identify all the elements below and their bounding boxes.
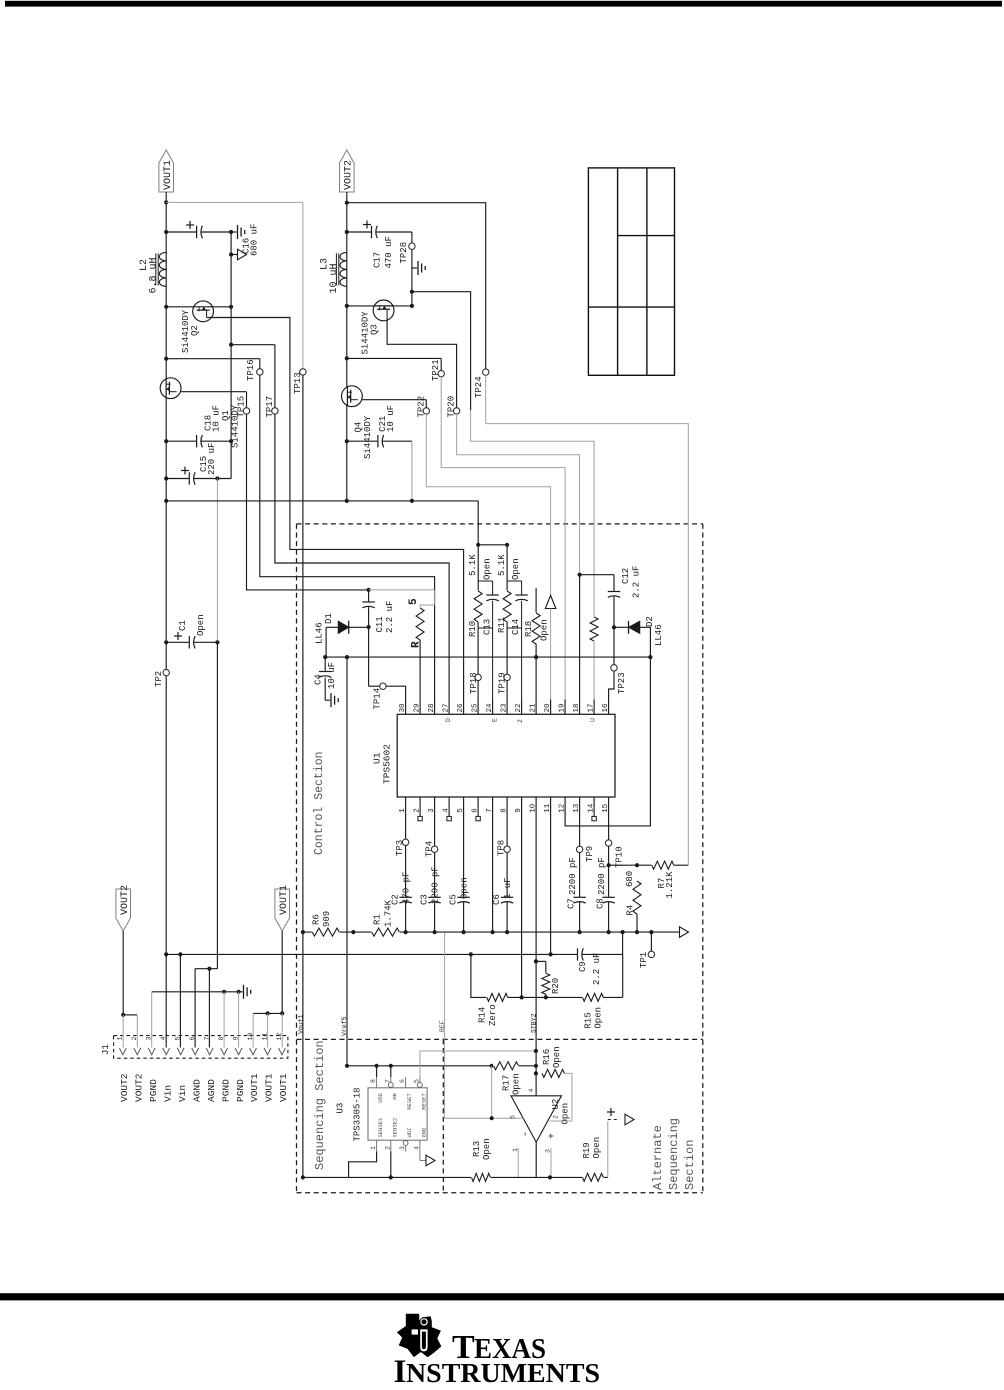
wire pin9 down to R14 line [521, 812, 523, 998]
svg-text:U2: U2 [551, 1099, 561, 1110]
node C2 [404, 930, 408, 934]
ground earth symbol at C4 [330, 693, 332, 707]
capacitor C12 2.2uF [613, 575, 615, 628]
svg-text:TP28: TP28 [399, 242, 409, 264]
U1 no-connect square [419, 812, 421, 817]
svg-text:12: 12 [558, 804, 566, 813]
svg-text:R18: R18 [524, 621, 534, 637]
svg-text:TP1: TP1 [639, 952, 649, 968]
resistor R11 5.1K [505, 543, 509, 547]
node C21 [345, 439, 349, 443]
svg-text:909: 909 [322, 911, 332, 927]
svg-text:2: 2 [517, 719, 524, 723]
test point TP23 [613, 627, 615, 664]
diode D2 LL46 [614, 626, 629, 628]
wire U3 pin5 RESET to STBY2 node [419, 1051, 421, 1077]
svg-text:I: I [394, 1354, 407, 1385]
test point TP8 on pin8 [506, 812, 508, 847]
node Vin rail [164, 499, 168, 503]
wire PGND2/drive to pin17 (grey) [471, 410, 594, 617]
svg-text:Vout1: Vout1 [297, 1014, 304, 1034]
svg-text:VOUT2: VOUT2 [119, 1073, 130, 1102]
svg-text:RESET: RESET [406, 1093, 413, 1110]
wire D1 anode down [325, 627, 327, 657]
U1 pin 5 stub [463, 797, 465, 812]
svg-text:TP22: TP22 [417, 396, 427, 418]
wire to pin23 [506, 622, 508, 700]
svg-text:5.1K: 5.1K [468, 554, 478, 576]
op-amp U2 Open [511, 1096, 562, 1142]
node PGND arrow tap [229, 252, 233, 256]
svg-text:C9: C9 [578, 961, 588, 972]
test point TP13 [300, 369, 306, 375]
svg-text:680 uF: 680 uF [250, 224, 260, 256]
svg-text:680: 680 [625, 871, 635, 887]
node pin7 [491, 930, 495, 934]
resistor R7 1.21K [651, 860, 674, 870]
svg-text:10 uF: 10 uF [386, 405, 396, 432]
wire C15 branch [166, 478, 231, 480]
capacitor C2 470pF [398, 897, 412, 902]
svg-text:SENSE2: SENSE2 [391, 1118, 398, 1138]
svg-text:23: 23 [500, 703, 508, 713]
J1 pin 12 VOUT1 [279, 1048, 286, 1055]
capacitor C5 Open on pin5 [463, 812, 465, 933]
svg-text:25: 25 [471, 703, 479, 713]
wire R4/R7 feed line [609, 864, 652, 866]
J1 pin 4 Vin [163, 1048, 170, 1055]
svg-text:TP8: TP8 [497, 840, 507, 856]
comp/AGND rail [303, 931, 679, 933]
capacitor C16 [196, 225, 201, 239]
svg-text:C17: C17 [373, 252, 383, 268]
svg-text:22: 22 [515, 703, 523, 712]
node Q2 source [164, 305, 168, 309]
U1 pin 3 stub [434, 797, 436, 812]
J1 pin 1 VOUT2 [119, 1048, 126, 1055]
U1 pin 10 stub [535, 797, 537, 812]
svg-text:C4: C4 [314, 674, 324, 685]
svg-text:6: 6 [399, 1079, 406, 1083]
U1 pin 29 stub [419, 700, 421, 715]
svg-text:R6: R6 [312, 914, 322, 925]
svg-text:C1: C1 [178, 620, 188, 631]
svg-text:TP24: TP24 [474, 376, 484, 398]
capacitor C18 [196, 434, 201, 448]
svg-text:11: 11 [544, 803, 552, 813]
U1 pin 6 stub [477, 797, 479, 812]
resistor R18 Open [535, 588, 537, 613]
wire TP17 to pin27 staircase [275, 414, 449, 699]
svg-text:PGND: PGND [235, 1079, 246, 1102]
wire Q2 chord [166, 306, 231, 308]
test point TP2 [163, 669, 169, 675]
capacitor C3 2200pF [427, 897, 441, 902]
svg-text:C7: C7 [566, 898, 576, 909]
node pin9 on R14 line [520, 995, 524, 999]
wire to TP17 [231, 344, 275, 346]
U1 pin 25 stub [477, 700, 479, 715]
svg-text:220 uF: 220 uF [207, 443, 217, 475]
wire Q4 gate to TP22 [362, 399, 426, 401]
power flag arrow PGND1 [238, 249, 247, 260]
C17 plus sign [363, 224, 371, 226]
wire Q3 chord [347, 305, 412, 307]
svg-text:5: 5 [510, 1115, 517, 1119]
wire C16 node down [230, 232, 232, 307]
node R6 left [301, 930, 305, 934]
wire rail to lower rail [622, 932, 624, 954]
svg-text:Open: Open [512, 1073, 522, 1095]
svg-text:TP16: TP16 [246, 359, 256, 381]
svg-text:6.8 uH: 6.8 uH [149, 257, 160, 293]
svg-text:Open: Open [483, 558, 493, 580]
svg-text:R19: R19 [582, 1142, 592, 1158]
wire R10/R11 top tie [478, 544, 507, 546]
wire VOUT2 main vertical [346, 192, 348, 501]
node C5 [462, 930, 466, 934]
net flag VOUT1 (top) [159, 150, 174, 192]
wire D2 node down to pin12 [565, 657, 650, 826]
svg-text:21: 21 [529, 703, 537, 713]
node C7 [578, 930, 582, 934]
svg-text:Q2: Q2 [190, 325, 200, 336]
svg-text:VDD: VDD [377, 1092, 384, 1103]
svg-text:TP17: TP17 [265, 396, 275, 418]
svg-text:J1: J1 [101, 1044, 111, 1055]
U1 pin 22 stub [521, 700, 523, 715]
svg-text:-: - [521, 1131, 532, 1137]
svg-text:Vref5: Vref5 [341, 1016, 348, 1036]
U1 pin 17 stub [593, 700, 595, 715]
transistor Q1 Si4410DY [160, 378, 181, 399]
svg-text:470 uF: 470 uF [384, 236, 394, 268]
svg-text:TP23: TP23 [617, 672, 627, 694]
dashed stub with plus and arrow [608, 1119, 620, 1121]
svg-text:14: 14 [587, 803, 595, 813]
wire Vin rail horizontal [166, 500, 478, 502]
svg-text:VOUT1: VOUT1 [249, 1073, 260, 1102]
svg-text:Vin: Vin [177, 1085, 188, 1102]
node C11/boot [367, 588, 371, 592]
svg-text:Open: Open [459, 877, 469, 899]
bottom line with R13/R19 [303, 1176, 608, 1178]
node R7/R4 line [607, 863, 611, 867]
transistor Q2 Si4410DY [193, 301, 214, 322]
J1 pin 2 VOUT2 [134, 1048, 141, 1055]
wire VOUT2 flag to J1 pins 1,2 [116, 889, 131, 931]
wire to pin25 [477, 622, 479, 700]
wire U3 pin1 SENSE1 jog [349, 1152, 377, 1178]
wire REF to U2 in- [445, 1117, 524, 1119]
svg-text:10 uH: 10 uH [329, 263, 340, 293]
capacitor C9 2.2uF [577, 947, 582, 961]
J1 pin 10 VOUT1 [250, 1048, 257, 1055]
svg-text:Open: Open [592, 1137, 602, 1159]
svg-text:1: 1 [117, 1037, 124, 1041]
svg-text:5.1K: 5.1K [497, 554, 507, 576]
net flag VOUT2 (top) [340, 150, 355, 192]
test point TP3 on pin1 [405, 812, 407, 840]
svg-text:Q4: Q4 [354, 422, 364, 433]
wire pin18 node to C12 [578, 573, 582, 577]
ground earth symbol at C17 [417, 261, 419, 275]
wire TP14 to pin30 [368, 627, 370, 686]
svg-text:19: 19 [558, 703, 566, 712]
svg-text:TP18: TP18 [469, 672, 479, 694]
svg-text:LL46: LL46 [315, 622, 325, 644]
wire TP16 to pin28 staircase [260, 375, 435, 699]
svg-text:R20: R20 [551, 978, 561, 994]
C16 plus sign [186, 224, 194, 226]
resistor R1 1.74K [371, 927, 400, 937]
U1 pin 20 stub [550, 700, 552, 715]
U1 pin 11 stub [550, 797, 552, 812]
U1 pin 14 stub [593, 797, 595, 812]
ground earth symbol at C16 [237, 225, 239, 239]
node pin11 [549, 952, 553, 956]
svg-text:R15: R15 [584, 1012, 594, 1028]
node C15 [164, 476, 168, 480]
U1 pin 13 stub [579, 797, 581, 812]
svg-text:R: R [411, 641, 423, 648]
U1 pin 2 stub [419, 797, 421, 812]
U1 pin 4 stub [448, 797, 450, 812]
svg-text:Open: Open [552, 1046, 562, 1068]
net arrow at rail end [680, 927, 689, 938]
U3 TPS3305-18 body [368, 1088, 427, 1140]
wire Vin pins 4,5 [165, 954, 167, 1047]
U1 pin 16 stub [608, 700, 610, 715]
svg-text:GND: GND [420, 1127, 427, 1138]
svg-text:C8: C8 [595, 898, 605, 909]
svg-text:2200 pF: 2200 pF [430, 866, 440, 904]
node R6/R1 [351, 930, 355, 934]
node C6 [505, 930, 509, 934]
svg-text:Si4410DY: Si4410DY [363, 415, 373, 459]
resistor R10 5.1K [476, 543, 480, 547]
U1 pin 21 stub [535, 700, 537, 715]
test point TP20 [453, 408, 459, 414]
svg-text:REF: REF [439, 1020, 446, 1032]
test points TP18 TP19 [475, 674, 481, 680]
wire Q2 gate to pin26 staircase [207, 318, 464, 700]
capacitor C15 [189, 471, 194, 485]
sequencing / alternate divider [442, 1039, 444, 1192]
node C17 tap [345, 230, 349, 234]
test point TP28 [409, 243, 415, 249]
svg-text:30: 30 [399, 703, 407, 713]
C15 plus sign [181, 470, 189, 472]
resistor R15 Open [582, 992, 604, 1002]
svg-text:Sequencing Section: Sequencing Section [313, 1040, 327, 1170]
svg-text:Open: Open [511, 558, 521, 580]
svg-text:TP15: TP15 [237, 396, 247, 418]
connector J1 dashed box [114, 1036, 288, 1059]
svg-text:D: D [445, 718, 452, 722]
U3 bottom pins 1,2,3,4 [376, 1140, 378, 1151]
U1 pin 7 stub [492, 797, 494, 812]
svg-text:TP9: TP9 [585, 846, 595, 862]
node PGND2 [410, 290, 414, 294]
wire to pin22 [521, 628, 523, 700]
svg-text:TP14: TP14 [373, 688, 383, 710]
svg-text:R4: R4 [625, 905, 635, 916]
svg-text:5: 5 [408, 598, 420, 605]
svg-text:D1: D1 [324, 613, 334, 624]
wire TP15 to D1 node [247, 414, 369, 590]
node TP1 [649, 930, 653, 934]
node R18 on bus [534, 655, 538, 659]
wire Vout1 sense down to sequencing [302, 932, 304, 1177]
capacitor C11 [368, 590, 370, 627]
diode D1 triangle [338, 621, 348, 633]
svg-text:24: 24 [486, 703, 494, 713]
svg-text:20: 20 [544, 703, 552, 713]
node C16 tap [164, 230, 168, 234]
svg-text:10 uF: 10 uF [212, 405, 222, 432]
diode D1 cathode bar [348, 621, 350, 634]
svg-text:4: 4 [528, 1089, 535, 1093]
svg-text:18: 18 [573, 703, 581, 712]
J1 pin 3 PGND [148, 1048, 155, 1055]
test point TP10 on pin15 [608, 812, 610, 840]
wire TP20 to pin18 staircase (grey) [457, 414, 580, 575]
wire AGND drop lower [216, 642, 218, 968]
node C3 [433, 930, 437, 934]
svg-text:AGND: AGND [191, 1079, 202, 1102]
wire C21 to rail (grey) [411, 441, 413, 501]
wire pin10 STBY2 down [535, 812, 537, 1096]
svg-text:STBY2: STBY2 [530, 1013, 537, 1033]
svg-text:16: 16 [602, 703, 610, 713]
wire to C16 [166, 231, 231, 233]
wire TP22 to pin20 staircase (grey) [426, 414, 550, 596]
capacitor C21 [377, 434, 382, 448]
svg-text:PGND: PGND [148, 1079, 159, 1102]
svg-text:MR: MR [391, 1092, 398, 1099]
U1 pin 30 stub [405, 700, 407, 715]
node Q2 drain [229, 305, 233, 309]
svg-text:WDI: WDI [406, 1128, 413, 1138]
ground earth symbol at J1 PGND [243, 985, 245, 999]
svg-text:R13: R13 [472, 1141, 482, 1157]
svg-text:1.21K: 1.21K [665, 871, 675, 899]
wire to TP21 [347, 357, 441, 359]
svg-text:2.2 uF: 2.2 uF [592, 953, 602, 985]
transistor Q3 Si4410DY [373, 300, 394, 321]
svg-text:TP21: TP21 [431, 359, 441, 381]
svg-text:C14: C14 [511, 619, 521, 635]
svg-text:10: 10 [529, 803, 537, 813]
svg-text:2: 2 [384, 1146, 391, 1150]
wire pin11 to lower rail [550, 812, 552, 955]
capacitor C1 (Open) [164, 640, 168, 644]
svg-text:TPS3305-18: TPS3305-18 [353, 1087, 363, 1141]
wire VOUT1 sense to TP13 (grey) [166, 201, 303, 203]
resistor R13 Open [471, 1172, 491, 1182]
wire TP13/VOUT1 down to R6 [302, 375, 304, 932]
U1 pin 8 stub [506, 797, 508, 812]
J1 pin 9 PGND [235, 1048, 242, 1055]
test point TP21 [438, 370, 444, 376]
svg-text:3: 3 [545, 1149, 552, 1153]
wire AGND drop (grey) [216, 479, 218, 643]
svg-text:U3: U3 [336, 1103, 346, 1114]
U1 pin 27 stub [448, 700, 450, 715]
svg-text:Alternate: Alternate [651, 1125, 665, 1190]
svg-text:29: 29 [413, 703, 421, 712]
J1 pin 11 VOUT1 [264, 1048, 271, 1055]
net flag arrow (pin20) [545, 596, 556, 609]
resistor R17 Open [490, 1064, 494, 1068]
U1 pin 18 stub [579, 700, 581, 715]
svg-text:Control Section: Control Section [313, 751, 326, 855]
wire Vref5 to U3 VDD/MR and R17 [347, 1065, 536, 1067]
wire to R5 (grey) [369, 589, 435, 591]
svg-text:SENSE1: SENSE1 [377, 1117, 384, 1138]
svg-text:Open: Open [594, 1007, 604, 1029]
wire Q1 gate to TP15 [181, 391, 247, 393]
svg-text:Section: Section [683, 1140, 697, 1190]
node TP16 tap [164, 357, 168, 361]
J1 pin 6 AGND [192, 1048, 199, 1055]
wire Vref5 vertical [346, 657, 348, 1066]
TI logo mark [397, 1314, 441, 1358]
svg-text:Q3: Q3 [370, 324, 380, 335]
wire C17 right leg [411, 232, 413, 306]
svg-text:470 pF: 470 pF [401, 872, 411, 904]
node pin5 riser [178, 952, 182, 956]
svg-text:26: 26 [457, 703, 465, 713]
svg-text:15: 15 [602, 803, 610, 813]
capacitor C7 2200pF [572, 897, 586, 902]
svg-text:1: 1 [370, 1146, 377, 1150]
wire pin7 to rail [492, 812, 494, 933]
resistor (gate drive, pin17 line) [589, 617, 599, 642]
svg-text:R17: R17 [502, 1075, 512, 1091]
svg-text:Sequencing: Sequencing [667, 1118, 681, 1190]
svg-text:R1: R1 [373, 914, 383, 925]
top border bar [5, 1, 1002, 7]
svg-text:LL46: LL46 [654, 624, 664, 646]
svg-text:TP4: TP4 [425, 841, 435, 857]
svg-text:8: 8 [370, 1079, 377, 1083]
wire STBY2 into U2 pin4 [534, 1064, 538, 1068]
J1 pin 7 AGND [206, 1048, 213, 1055]
long horizontal node line (boot/vref bus) [325, 656, 650, 658]
capacitor C13 Open [478, 580, 492, 582]
test point TP4 on pin3 [434, 812, 436, 847]
U1 pin 12 stub [564, 797, 566, 812]
svg-text:Vin: Vin [162, 1085, 173, 1102]
svg-text:2200 pF: 2200 pF [597, 857, 607, 895]
wire to TP16 [166, 358, 260, 360]
test point TP15 [243, 408, 249, 414]
capacitor C8 2200pF [601, 897, 615, 902]
svg-text:TP2: TP2 [154, 671, 164, 687]
svg-text:R10: R10 [468, 621, 478, 637]
node Q3 drain [410, 304, 414, 308]
capacitor C6 1uF [500, 897, 514, 902]
U1 pin 26 stub [463, 700, 465, 715]
node R14 drop [469, 952, 473, 956]
resistor R6 909 [312, 927, 340, 937]
resistor R4 680 [632, 881, 642, 915]
svg-text:TP13: TP13 [293, 372, 303, 394]
svg-text:+: + [548, 1133, 559, 1139]
wire AGND pins 6,7 [195, 968, 217, 970]
